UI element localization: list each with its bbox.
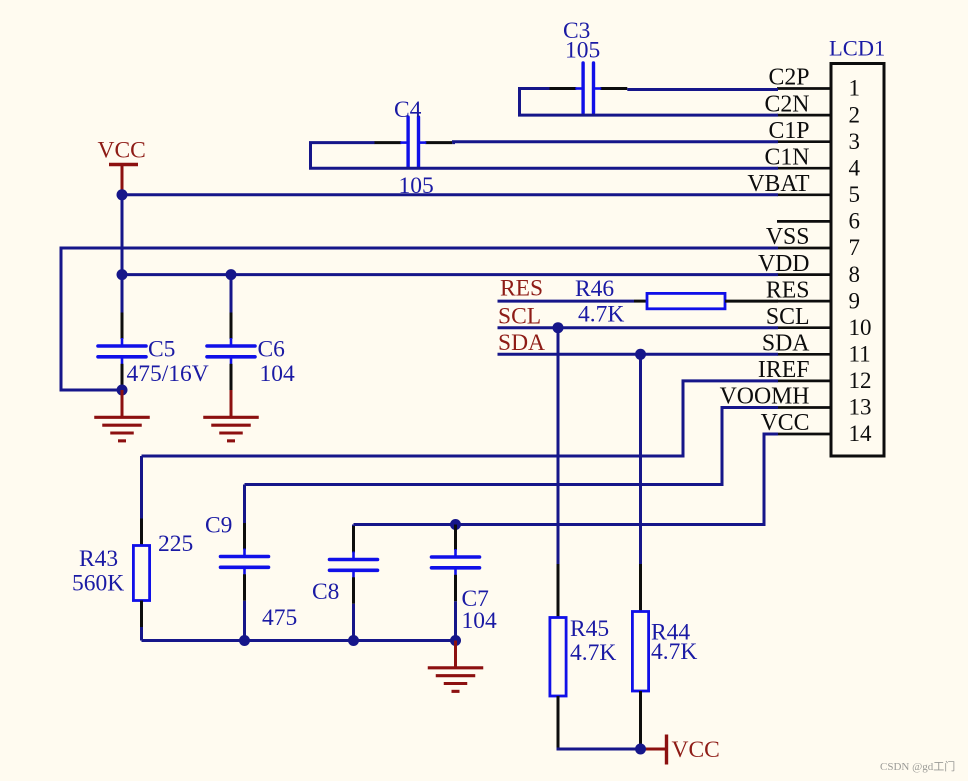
- svg-text:SDA: SDA: [498, 330, 545, 356]
- svg-text:C1N: C1N: [765, 144, 810, 170]
- svg-text:12: 12: [849, 368, 872, 393]
- pin 8 stub: [777, 273, 832, 276]
- svg-text:C2P: C2P: [768, 65, 809, 91]
- wire VDD pin8 rail: [122, 273, 778, 276]
- wire VCC stem down to VDD rail: [121, 195, 124, 275]
- resistor R44: [639, 564, 642, 612]
- svg-text:104: 104: [462, 608, 498, 634]
- pin 9 stub: [777, 300, 832, 303]
- junction R44/VCC rail: [635, 744, 646, 755]
- capacitor C6: [230, 275, 233, 313]
- wire C3 left jog down to C2N: [520, 89, 550, 116]
- svg-text:CSDN @gd工门: CSDN @gd工门: [880, 759, 955, 773]
- pin 2 stub: [777, 114, 832, 117]
- svg-text:IREF: IREF: [758, 357, 810, 383]
- svg-text:4.7K: 4.7K: [570, 640, 616, 666]
- wire C4 left jog down to C1N: [311, 143, 375, 169]
- capacitor C5: [121, 275, 124, 313]
- svg-text:RES: RES: [500, 276, 543, 302]
- svg-text:LCD1: LCD1: [829, 36, 885, 61]
- svg-text:9: 9: [849, 288, 861, 313]
- pin 7 stub: [777, 247, 832, 250]
- capacitor C9: [243, 485, 246, 524]
- resistor R45: [557, 564, 560, 618]
- svg-text:14: 14: [849, 421, 873, 446]
- pin 3 stub: [777, 140, 832, 143]
- pin 11 stub: [777, 353, 832, 356]
- pin 4 stub: [777, 167, 832, 170]
- junction C9 bottom: [239, 635, 250, 646]
- svg-text:560K: 560K: [72, 571, 124, 597]
- svg-text:SCL: SCL: [766, 304, 810, 330]
- wire C2N to pin2: [518, 114, 778, 117]
- svg-text:C9: C9: [205, 513, 232, 539]
- power VCC (top left): [109, 163, 138, 166]
- wire C4 right to pin3 C1P: [452, 140, 778, 144]
- junction VDD/C5: [117, 269, 128, 280]
- wire bottom rail R43..C7: [142, 639, 456, 642]
- pin 12 stub: [777, 380, 832, 383]
- ground under C6: [230, 390, 233, 417]
- svg-text:VCC: VCC: [761, 410, 810, 436]
- svg-text:VBAT: VBAT: [747, 171, 810, 197]
- svg-text:VCC: VCC: [98, 138, 146, 164]
- svg-text:R43: R43: [79, 546, 118, 572]
- svg-text:C1P: C1P: [768, 118, 809, 144]
- capacitor C3: [549, 87, 576, 90]
- wire RES to R46: [498, 300, 635, 303]
- svg-text:5: 5: [849, 182, 861, 207]
- svg-text:RES: RES: [766, 277, 810, 303]
- svg-text:C6: C6: [258, 337, 286, 363]
- svg-text:8: 8: [849, 262, 861, 287]
- ground under C5: [121, 390, 124, 417]
- svg-text:R45: R45: [570, 616, 609, 642]
- wire IREF pin12 down-left rail: [142, 381, 779, 456]
- svg-text:10: 10: [849, 315, 872, 340]
- junction C7 top rail: [450, 519, 461, 530]
- svg-text:SDA: SDA: [762, 331, 810, 357]
- svg-text:3: 3: [849, 129, 861, 154]
- junction SDA/R44: [635, 349, 646, 360]
- junction C7 bottom/ground: [450, 635, 461, 646]
- svg-text:11: 11: [849, 342, 871, 367]
- capacitor C8: [352, 525, 355, 527]
- svg-text:SCL: SCL: [498, 304, 541, 330]
- svg-text:225: 225: [158, 531, 193, 557]
- svg-text:475: 475: [262, 605, 297, 631]
- resistor R46: [634, 300, 648, 303]
- svg-text:C8: C8: [312, 579, 339, 605]
- svg-text:VDD: VDD: [758, 251, 810, 277]
- power VCC (bottom): [665, 735, 668, 765]
- svg-text:104: 104: [260, 361, 296, 387]
- resistor R43: [140, 456, 143, 519]
- wire SCL to pin10: [498, 326, 779, 329]
- capacitor C4: [374, 141, 401, 144]
- svg-text:7: 7: [849, 235, 861, 260]
- wire R45/R44 bottom rail: [558, 748, 641, 750]
- svg-text:VCC: VCC: [672, 737, 720, 763]
- junction VDD/C6: [226, 269, 237, 280]
- svg-text:C2N: C2N: [765, 91, 810, 117]
- wire VBAT to pin5: [122, 193, 778, 196]
- junction VCC/VBAT: [117, 189, 128, 200]
- connector LCD1 body: [831, 64, 884, 457]
- ground under C7: [454, 641, 457, 668]
- svg-text:105: 105: [565, 38, 600, 64]
- wire VSS pin7 to left loop: [61, 248, 778, 390]
- wire VCC pin14 down-left rail: [354, 434, 779, 525]
- svg-text:4.7K: 4.7K: [578, 302, 624, 328]
- wire C3 right to pin1 C2P: [627, 88, 778, 91]
- svg-text:VOOMH: VOOMH: [720, 384, 810, 410]
- svg-text:R46: R46: [575, 276, 614, 302]
- junction C5 bottom / VSS loop: [117, 385, 128, 396]
- wire C1N to pin4: [309, 167, 778, 170]
- capacitor C7: [454, 525, 457, 551]
- svg-text:13: 13: [849, 395, 872, 420]
- wire SDA to pin11: [498, 353, 779, 356]
- svg-text:475/16V: 475/16V: [127, 361, 209, 387]
- svg-text:C4: C4: [394, 97, 422, 123]
- wire SDA junction down to R44: [639, 354, 642, 564]
- pin 13 stub: [777, 406, 832, 409]
- pin 14 stub: [777, 433, 832, 436]
- pin 5 stub: [777, 193, 832, 196]
- wire to VCC power (red): [641, 748, 667, 751]
- svg-text:C5: C5: [148, 337, 175, 363]
- junction SCL/R45: [553, 322, 564, 333]
- junction C8 bottom: [348, 635, 359, 646]
- svg-text:VSS: VSS: [766, 224, 810, 250]
- svg-text:6: 6: [849, 209, 861, 234]
- svg-text:4.7K: 4.7K: [651, 639, 697, 665]
- svg-text:4: 4: [849, 155, 861, 180]
- pin 6 stub: [777, 220, 832, 223]
- wire VOOMH pin13 down-left rail: [245, 408, 779, 485]
- pin 10 stub: [777, 326, 832, 329]
- svg-text:1: 1: [849, 76, 861, 101]
- pin 1 stub: [777, 87, 832, 90]
- wire SCL junction down to R45: [557, 328, 560, 565]
- svg-text:2: 2: [849, 102, 861, 127]
